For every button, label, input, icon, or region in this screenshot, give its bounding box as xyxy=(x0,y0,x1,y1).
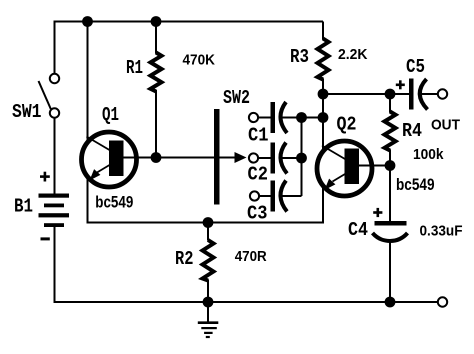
svg-text:R1: R1 xyxy=(126,57,143,79)
switch SW2 wiper arrow xyxy=(235,152,247,163)
svg-text:SW2: SW2 xyxy=(223,87,250,109)
wire C4 to bottom rail xyxy=(389,240,391,302)
svg-text:R2: R2 xyxy=(175,248,194,270)
wire R4 node to C4 xyxy=(389,166,391,222)
wire capacitor bus vertical xyxy=(301,118,303,197)
capacitor C4 xyxy=(373,221,408,241)
wire B1 to bottom rail xyxy=(54,227,56,303)
junction node Q2 base / R4 / C4 xyxy=(385,160,396,171)
wire R1 top xyxy=(155,22,157,54)
junction node C1 / cap bus xyxy=(296,112,307,123)
wire C5 to OUT terminal xyxy=(421,93,438,95)
junction node top rail / R1 xyxy=(151,16,162,27)
capacitor C2 xyxy=(259,143,288,174)
wire bottom rail xyxy=(54,301,438,303)
wire left rail SW1 top xyxy=(54,21,56,75)
switch SW2 contact 1 xyxy=(249,113,258,122)
svg-text:C5: C5 xyxy=(406,56,425,78)
svg-text:470K: 470K xyxy=(183,52,216,69)
wire R1 bottom to base node xyxy=(155,90,157,158)
junction node C2 / cap bus xyxy=(296,153,307,164)
resistor R4 xyxy=(385,112,396,151)
wire top rail xyxy=(55,21,324,23)
wire R2 top xyxy=(207,223,209,241)
resistor R2 xyxy=(203,240,214,281)
wire Q1 emitter rail to Q2 emitter xyxy=(88,176,324,223)
wire R3 drop from top rail xyxy=(322,22,324,40)
svg-text:SW1: SW1 xyxy=(12,101,42,123)
wire C2 right plate to bus xyxy=(280,157,302,159)
wire R2 bottom xyxy=(207,280,209,303)
label B1 minus xyxy=(41,237,50,240)
switch SW2 contact 3 xyxy=(250,191,259,200)
terminal bottom right xyxy=(438,297,447,306)
switch SW2 pole bar xyxy=(214,109,220,205)
junction node R3 / C5 line xyxy=(318,89,329,100)
wire node R3 to C5 xyxy=(323,93,410,95)
junction node C5 line / R4 xyxy=(385,89,396,100)
svg-text:Q1: Q1 xyxy=(102,104,119,126)
svg-text:bc549: bc549 xyxy=(95,194,133,212)
wire ground stub xyxy=(207,302,209,322)
svg-text:2.2K: 2.2K xyxy=(338,46,368,63)
label C4 plus xyxy=(373,208,382,217)
junction node R2 / ground xyxy=(203,297,214,308)
wire Q1 base to SW2 pole xyxy=(124,157,240,159)
wire Q2 base to R4 node xyxy=(359,165,390,167)
svg-text:0.33uF: 0.33uF xyxy=(420,223,463,240)
junction node emitter rail / R2 xyxy=(203,217,214,228)
capacitor C5 xyxy=(409,79,428,110)
svg-text:B1: B1 xyxy=(14,196,33,218)
svg-text:C1: C1 xyxy=(248,125,269,147)
label C5 plus xyxy=(396,80,405,89)
terminal OUT xyxy=(438,89,447,98)
switch SW1 xyxy=(39,74,60,118)
junction node R1 / Q1 base xyxy=(151,152,162,163)
svg-text:Q2: Q2 xyxy=(337,114,357,136)
svg-text:C2: C2 xyxy=(248,164,269,186)
wire Q1 collector xyxy=(87,22,89,144)
label B1 plus xyxy=(40,172,50,182)
svg-text:R4: R4 xyxy=(402,120,422,142)
resistor R1 xyxy=(151,53,162,92)
svg-text:C3: C3 xyxy=(247,203,268,225)
svg-text:100k: 100k xyxy=(413,146,444,163)
wire C3 right plate to bus xyxy=(280,195,302,197)
capacitor C1 xyxy=(259,102,288,133)
wire C1 right plate to collector node xyxy=(280,117,323,119)
svg-text:bc549: bc549 xyxy=(396,176,435,194)
transistor Q2 xyxy=(317,141,372,196)
switch SW2 contact 2 xyxy=(249,153,258,162)
capacitor C3 xyxy=(260,181,288,212)
transistor Q1 xyxy=(82,132,137,187)
battery B1 xyxy=(39,194,70,228)
wire SW1 to B1 xyxy=(54,118,56,195)
svg-text:C4: C4 xyxy=(348,219,368,241)
junction node top rail / Q1 collector xyxy=(82,16,93,27)
junction node C4 / bottom rail xyxy=(385,297,396,308)
ground xyxy=(198,323,219,337)
junction node C1 / Q2 collector xyxy=(318,112,329,123)
resistor R3 xyxy=(318,39,329,80)
wire R4 bottom xyxy=(389,150,391,167)
wire R4 top xyxy=(389,94,391,113)
wire R3 bottom to Q2 collector xyxy=(322,79,324,152)
svg-text:R3: R3 xyxy=(290,46,309,68)
svg-text:470R: 470R xyxy=(235,248,267,265)
svg-text:OUT: OUT xyxy=(431,117,460,134)
